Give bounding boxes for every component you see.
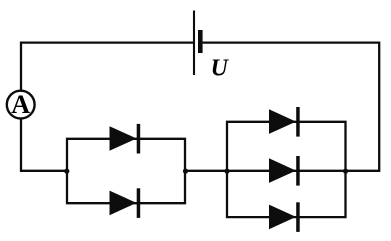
svg-text:U: U	[211, 55, 230, 81]
svg-text:A: A	[11, 90, 30, 119]
